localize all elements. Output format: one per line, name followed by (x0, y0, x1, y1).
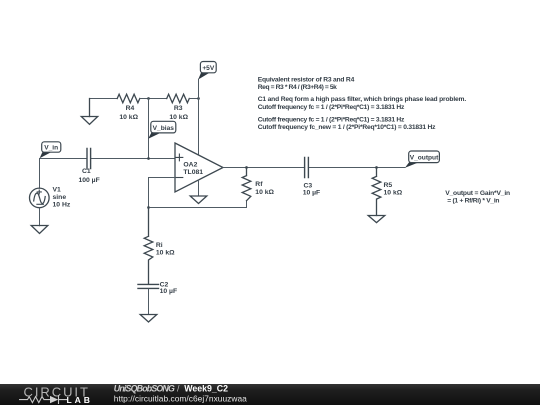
svg-text:Ri: Ri (156, 242, 163, 249)
footer bar (0, 384, 540, 405)
svg-text:100 µF: 100 µF (78, 177, 99, 184)
wire V_bias vertical (148, 99, 150, 159)
wire V1 top vertical (39, 159, 41, 189)
svg-text:C1 and Req form a high pass fi: C1 and Req form a high pass filter, whic… (258, 96, 467, 103)
svg-text:OA2: OA2 (183, 161, 197, 168)
wire feedback row (149, 201, 247, 208)
svg-text:V_in: V_in (44, 145, 58, 152)
footer logo resistor-diode glyph (20, 396, 67, 404)
svg-text:C1: C1 (82, 168, 91, 175)
ground G2 (below V1) (31, 226, 48, 234)
svg-text:Req = R3 * R4 / (R3+R4) = 5k: Req = R3 * R4 / (R3+R4) = 5k (258, 84, 337, 91)
resistor R4 (117, 94, 140, 103)
resistor R5 (372, 168, 381, 216)
svg-text:R4: R4 (126, 105, 135, 112)
capacitor C3 (305, 158, 309, 178)
svg-text:R3: R3 (174, 105, 183, 112)
wire top rail right segment (189, 98, 198, 100)
op-amp plus input mark (176, 154, 183, 161)
wire top rail middle segment (140, 98, 167, 100)
svg-text:Cutoff frequency fc_new = 1 /: Cutoff frequency fc_new = 1 / (2*Pi*Req*… (258, 124, 436, 131)
svg-text:10 kΩ: 10 kΩ (255, 189, 274, 196)
node junction at R5 (375, 166, 378, 169)
wire output row (right of C3) (308, 167, 405, 169)
wire op-amp ground pin (198, 180, 200, 196)
+5V net label (198, 62, 216, 80)
capacitor C1 (87, 149, 91, 169)
V_in net label (40, 142, 61, 159)
svg-text:V_bias: V_bias (153, 125, 175, 132)
node junction at + input / V_bias (147, 157, 150, 160)
ground G1 (top-left) (81, 99, 97, 125)
wire +5V vertical (198, 79, 200, 155)
capacitor C2 (138, 284, 159, 288)
svg-text:Equivalent resistor of R3 and: Equivalent resistor of R3 and R4 (258, 77, 355, 84)
node junction at R4/R3 (147, 97, 150, 100)
svg-text:10 µF: 10 µF (303, 190, 321, 197)
svg-text:TL081: TL081 (183, 169, 203, 176)
svg-text:10 µF: 10 µF (160, 288, 178, 295)
wire inverting input to feedback node (149, 178, 176, 208)
ground G4 (below R5) (368, 216, 385, 223)
resistor Ri (144, 208, 153, 284)
svg-text:Rf: Rf (255, 181, 263, 188)
footer logo diode triangle (50, 396, 58, 403)
svg-text:http://circuitlab.com/c6ej7nxu: http://circuitlab.com/c6ej7nxuuzwaa (114, 394, 247, 404)
svg-text:Cutoff frequency fc = 1 / (2*P: Cutoff frequency fc = 1 / (2*Pi*Req*C1) … (258, 104, 405, 111)
svg-text:+5V: +5V (202, 65, 215, 72)
svg-text:C3: C3 (304, 182, 313, 189)
wire input row (right of C1) (91, 158, 175, 160)
wire V1 bottom vertical (39, 208, 41, 226)
svg-text:Cutoff frequency fc = 1 / (2*P: Cutoff frequency fc = 1 / (2*Pi*Req*C1) … (258, 116, 405, 123)
resistor R3 (167, 94, 190, 103)
node junction at +5V rail (197, 97, 200, 100)
svg-text:LAB: LAB (67, 395, 92, 405)
svg-text:10 Hz: 10 Hz (53, 202, 71, 209)
ground G3 (below op-amp) (190, 196, 207, 204)
svg-text:10 kΩ: 10 kΩ (384, 190, 403, 197)
ground G5 (below C2) (140, 315, 157, 323)
node junction at Rf (245, 166, 248, 169)
annotation text block (258, 77, 467, 132)
svg-text:10 kΩ: 10 kΩ (169, 114, 188, 121)
wire input row (left of C1) (40, 158, 88, 160)
svg-text:UniSQBobSONG/Week9_C2: UniSQBobSONG/Week9_C2 (114, 383, 228, 393)
resistor Rf (242, 168, 251, 201)
svg-text:= (1 + Rf/Ri) * V_in: = (1 + Rf/Ri) * V_in (447, 197, 499, 204)
svg-text:sine: sine (53, 194, 67, 201)
op-amp OA2 (175, 143, 223, 192)
svg-text:V_output: V_output (410, 154, 439, 161)
wire output row (left of C3) (223, 167, 305, 169)
node junction feedback (147, 206, 150, 209)
V_bias net label (148, 121, 176, 138)
wire C2 bottom vertical (148, 289, 150, 314)
svg-text:V1: V1 (53, 187, 62, 194)
svg-text:10 kΩ: 10 kΩ (119, 114, 138, 121)
op-amp minus input mark (176, 177, 183, 179)
svg-text:V_output = Gain*V_in: V_output = Gain*V_in (445, 190, 510, 197)
annotation gain formula (445, 190, 510, 204)
svg-text:R5: R5 (384, 182, 393, 189)
wire top rail left segment (90, 98, 118, 100)
V_output net label (405, 151, 439, 168)
svg-text:10 kΩ: 10 kΩ (156, 249, 175, 256)
source V1 (30, 188, 50, 208)
